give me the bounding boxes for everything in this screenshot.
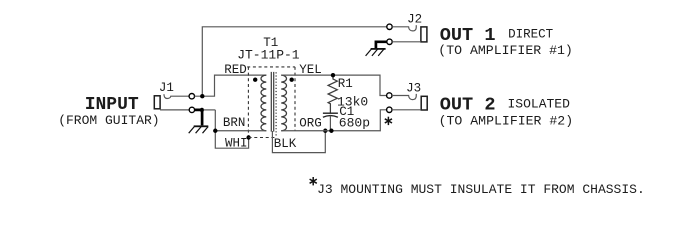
wire BLK lead path [272, 131, 325, 153]
transformer T1 dashed enclosure [247, 67, 295, 138]
node J1 tip junction [200, 94, 204, 98]
wire J3 sleeve to body [392, 109, 421, 111]
resistor R1 [328, 75, 337, 113]
jack J1 sleeve contact circle [189, 107, 194, 112]
jack J2 body [421, 27, 427, 42]
wire J1 sleeve junction to BRN [204, 109, 216, 111]
svg-text:(FROM GUITAR): (FROM GUITAR) [58, 113, 159, 128]
wire BRN lead [215, 130, 266, 132]
svg-text:JT-11P-1: JT-11P-1 [237, 48, 300, 63]
jack J2 sleeve contact circle [387, 39, 392, 44]
svg-text:680p: 680p [339, 115, 370, 130]
svg-text:(TO AMPLIFIER #2): (TO AMPLIFIER #2) [439, 113, 574, 128]
wire WHI lead path [215, 110, 248, 148]
node C1 bottom junction [329, 129, 333, 133]
wire J1 tip to transformer primary top [195, 75, 267, 96]
capacitor C1 [323, 112, 338, 114]
wire J2 sleeve to body [392, 41, 421, 43]
node J1 sleeve junction [200, 108, 204, 112]
jack J2 tip spring hook [392, 25, 416, 31]
wire top rail from J1 tip junction up and right to J2 tip [202, 27, 386, 96]
wire dashed WHI to shield [249, 137, 277, 139]
svg-text:DIRECT: DIRECT [508, 28, 554, 42]
svg-text:J3 MOUNTING MUST INSULATE IT F: J3 MOUNTING MUST INSULATE IT FROM CHASSI… [317, 182, 645, 197]
svg-text:J1: J1 [159, 81, 174, 95]
svg-text:BLK: BLK [274, 137, 297, 151]
wire thick J2 sleeve to ground [376, 42, 387, 48]
svg-text:J2: J2 [407, 13, 422, 27]
svg-text:R1: R1 [338, 77, 353, 91]
svg-text:INPUT: INPUT [85, 95, 139, 115]
svg-text:J3: J3 [406, 81, 421, 95]
svg-text:ORG: ORG [299, 117, 322, 131]
chassis ground at J2 [366, 49, 386, 56]
transformer T1 core lines [271, 72, 273, 132]
chassis ground at J1 [189, 126, 209, 133]
jack J1 tip contact circle [189, 94, 194, 99]
jack J3 body [421, 96, 427, 110]
transformer T1 phase dot primary [253, 78, 257, 82]
transformer T1 phase dot secondary [290, 78, 294, 82]
jack J3 tip contact circle [387, 93, 392, 98]
transformer T1 primary winding [261, 75, 266, 131]
svg-text:(TO AMPLIFIER #1): (TO AMPLIFIER #1) [438, 43, 573, 58]
node WHI junction [246, 135, 250, 139]
svg-text:RED: RED [224, 63, 247, 77]
svg-text:BRN: BRN [223, 116, 246, 130]
jack J2 tip contact circle [387, 24, 392, 29]
transformer T1 faraday shield dotted [275, 72, 277, 137]
node BLK junction [323, 129, 327, 133]
svg-text:ISOLATED: ISOLATED [508, 97, 571, 112]
jack J1 tip spring hook and wire [164, 94, 189, 98]
node R1 top junction [331, 73, 335, 77]
jack J3 sleeve contact circle [387, 107, 392, 112]
asterisk at note [310, 177, 317, 185]
jack J1 body [154, 96, 160, 109]
transformer T1 secondary winding [281, 75, 286, 131]
asterisk at J3 [385, 117, 392, 125]
jack J3 tip spring hook [392, 94, 416, 100]
wire thick J1 sleeve to ground [195, 110, 203, 126]
node BRN junction [213, 129, 217, 133]
wire secondary bottom rail to J3 sleeve [281, 110, 386, 131]
wire secondary top lead to J3 tip [281, 75, 386, 95]
wire J1 sleeve row [160, 109, 189, 111]
